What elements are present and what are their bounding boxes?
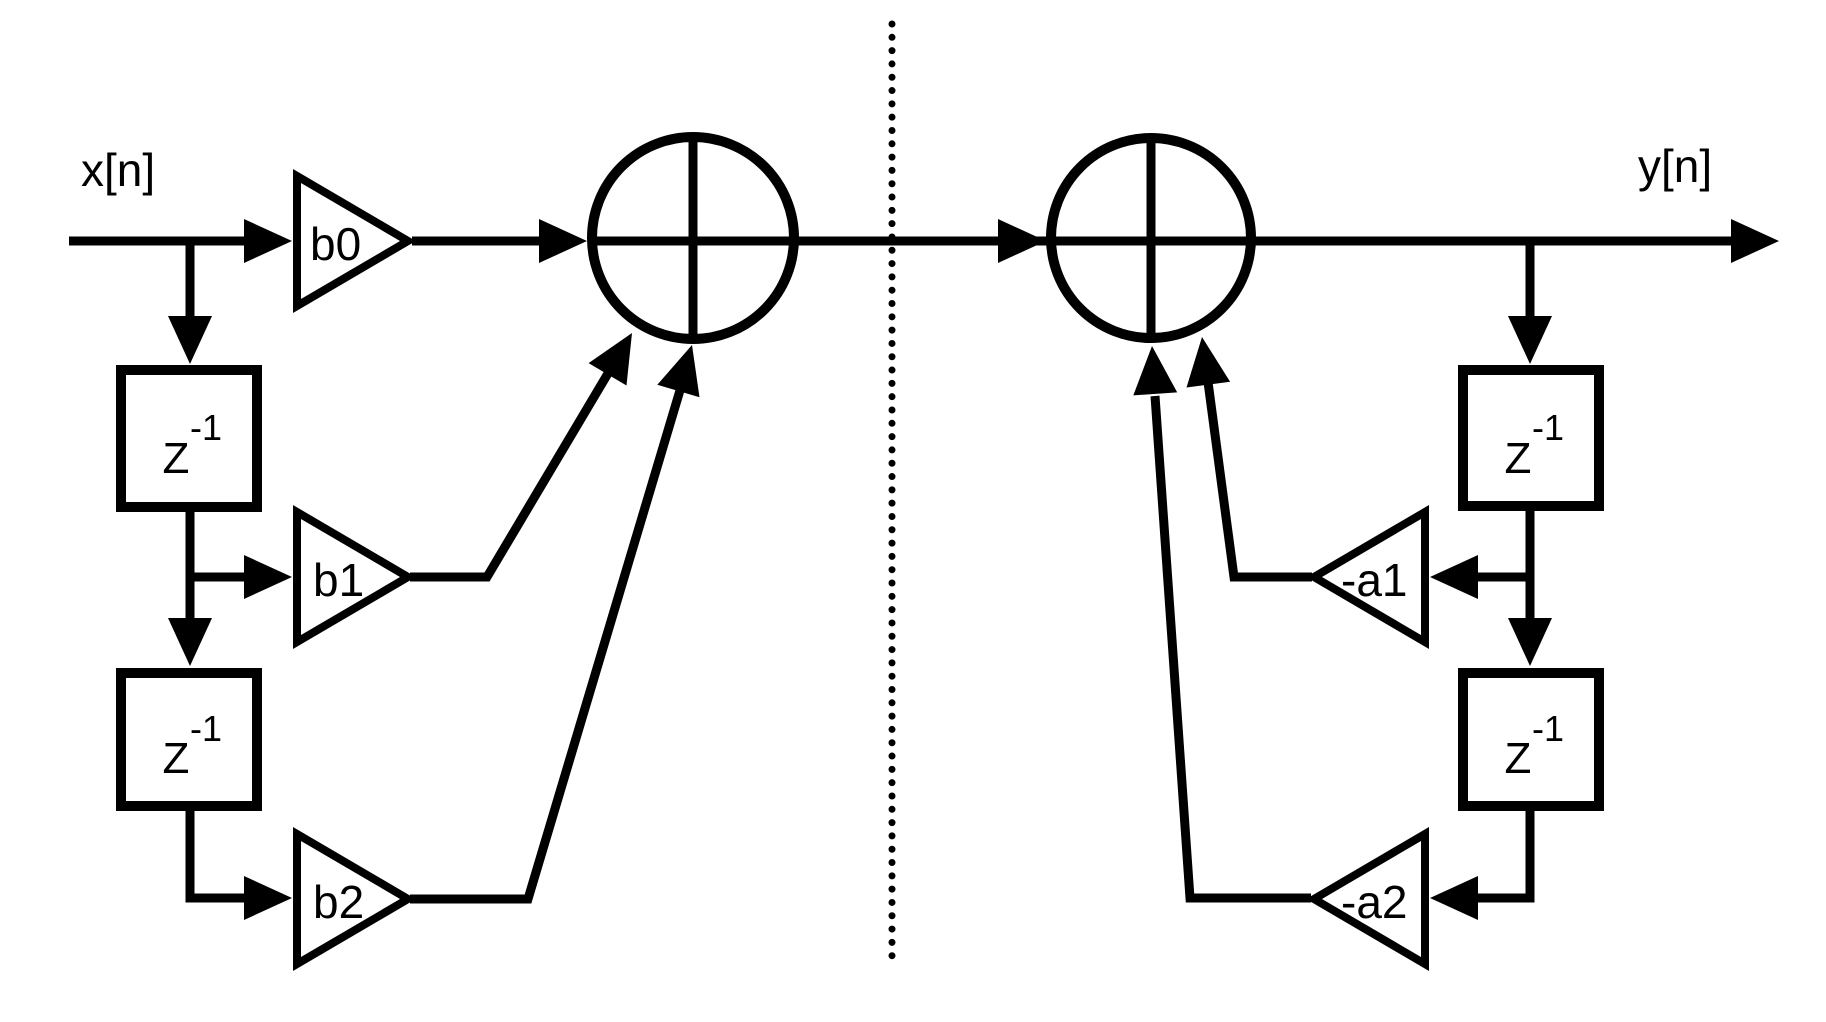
delay Z2 (left bottom) (121, 673, 257, 806)
arrowhead into b0 (244, 219, 292, 263)
wire tap down from output node (1526, 241, 1535, 322)
wire Z3 down (1526, 511, 1535, 620)
gain b2 (297, 834, 408, 964)
arrowhead -a2 wire into summer 2 (1133, 346, 1177, 395)
gain b0 (297, 176, 408, 306)
svg-text:b0: b0 (310, 218, 361, 270)
arrowhead output y[n] (1731, 219, 1779, 263)
svg-text:Z: Z (163, 734, 190, 783)
svg-text:b1: b1 (313, 554, 364, 606)
arrowhead b1 wire into summer 1 (589, 333, 632, 386)
summer U2 (adder circle) (1051, 138, 1251, 338)
summer U1 (adder circle) (592, 137, 794, 339)
arrowhead -a1 wire into summer 2 (1187, 337, 1231, 388)
arrowhead into -a2 (1430, 876, 1478, 920)
gain -a2 (1314, 834, 1425, 964)
wire input segment (69, 237, 248, 246)
arrowhead into summer 2 (998, 219, 1046, 263)
arrowhead into b1 (244, 555, 292, 599)
wire b2 to summer 1 (410, 387, 681, 899)
delay Z1 (left top) (121, 370, 257, 507)
svg-text:-1: -1 (190, 708, 222, 749)
wire b1 to summer 1 (410, 370, 610, 577)
svg-text:-1: -1 (1532, 708, 1564, 749)
arrowhead into delay Z3 right (1508, 316, 1552, 364)
arrowhead into delay Z1 left (168, 316, 212, 364)
svg-text:b2: b2 (313, 876, 364, 928)
wire -a1 to summer 2 (1208, 382, 1312, 577)
svg-text:Z: Z (1505, 734, 1532, 783)
wire summer1 through to output (horizontal main line) (589, 237, 1733, 246)
wire b0 to summer 1 (412, 237, 542, 246)
wire Z2 down and branch to b2 (190, 811, 247, 898)
summer U2 cross vertical (1147, 135, 1156, 341)
wire Z4 down and branch to -a2 (1475, 811, 1530, 898)
svg-text:x[n]: x[n] (81, 144, 155, 196)
gain b1 (297, 512, 408, 642)
arrowhead b2 wire into summer 1 (657, 345, 699, 397)
delay Z3 (right top) (1463, 370, 1599, 506)
svg-text:Z: Z (163, 434, 190, 483)
arrowhead into delay Z2 left (168, 618, 212, 666)
arrowhead into delay Z4 right (1508, 618, 1552, 666)
wire tap down from input node (186, 241, 195, 322)
svg-text:Z: Z (1505, 434, 1532, 483)
wire -a2 to summer 2 (1155, 396, 1311, 898)
arrowhead into b2 (244, 876, 292, 920)
delay Z4 (right bottom) (1463, 673, 1599, 806)
wire branch to -a1 (1475, 573, 1530, 582)
svg-text:y[n]: y[n] (1638, 140, 1712, 192)
wire branch to b1 (190, 573, 247, 582)
arrowhead into -a1 (1430, 555, 1478, 599)
svg-text:-a2: -a2 (1341, 876, 1407, 928)
gain -a1 (1314, 512, 1425, 642)
summer U1 cross vertical (689, 134, 698, 342)
dotted section divider (889, 24, 896, 958)
svg-text:-a1: -a1 (1341, 554, 1407, 606)
svg-text:-1: -1 (190, 407, 222, 448)
svg-text:-1: -1 (1532, 407, 1564, 448)
arrowhead into summer 1 (539, 219, 587, 263)
wire Z1 down (186, 512, 195, 620)
